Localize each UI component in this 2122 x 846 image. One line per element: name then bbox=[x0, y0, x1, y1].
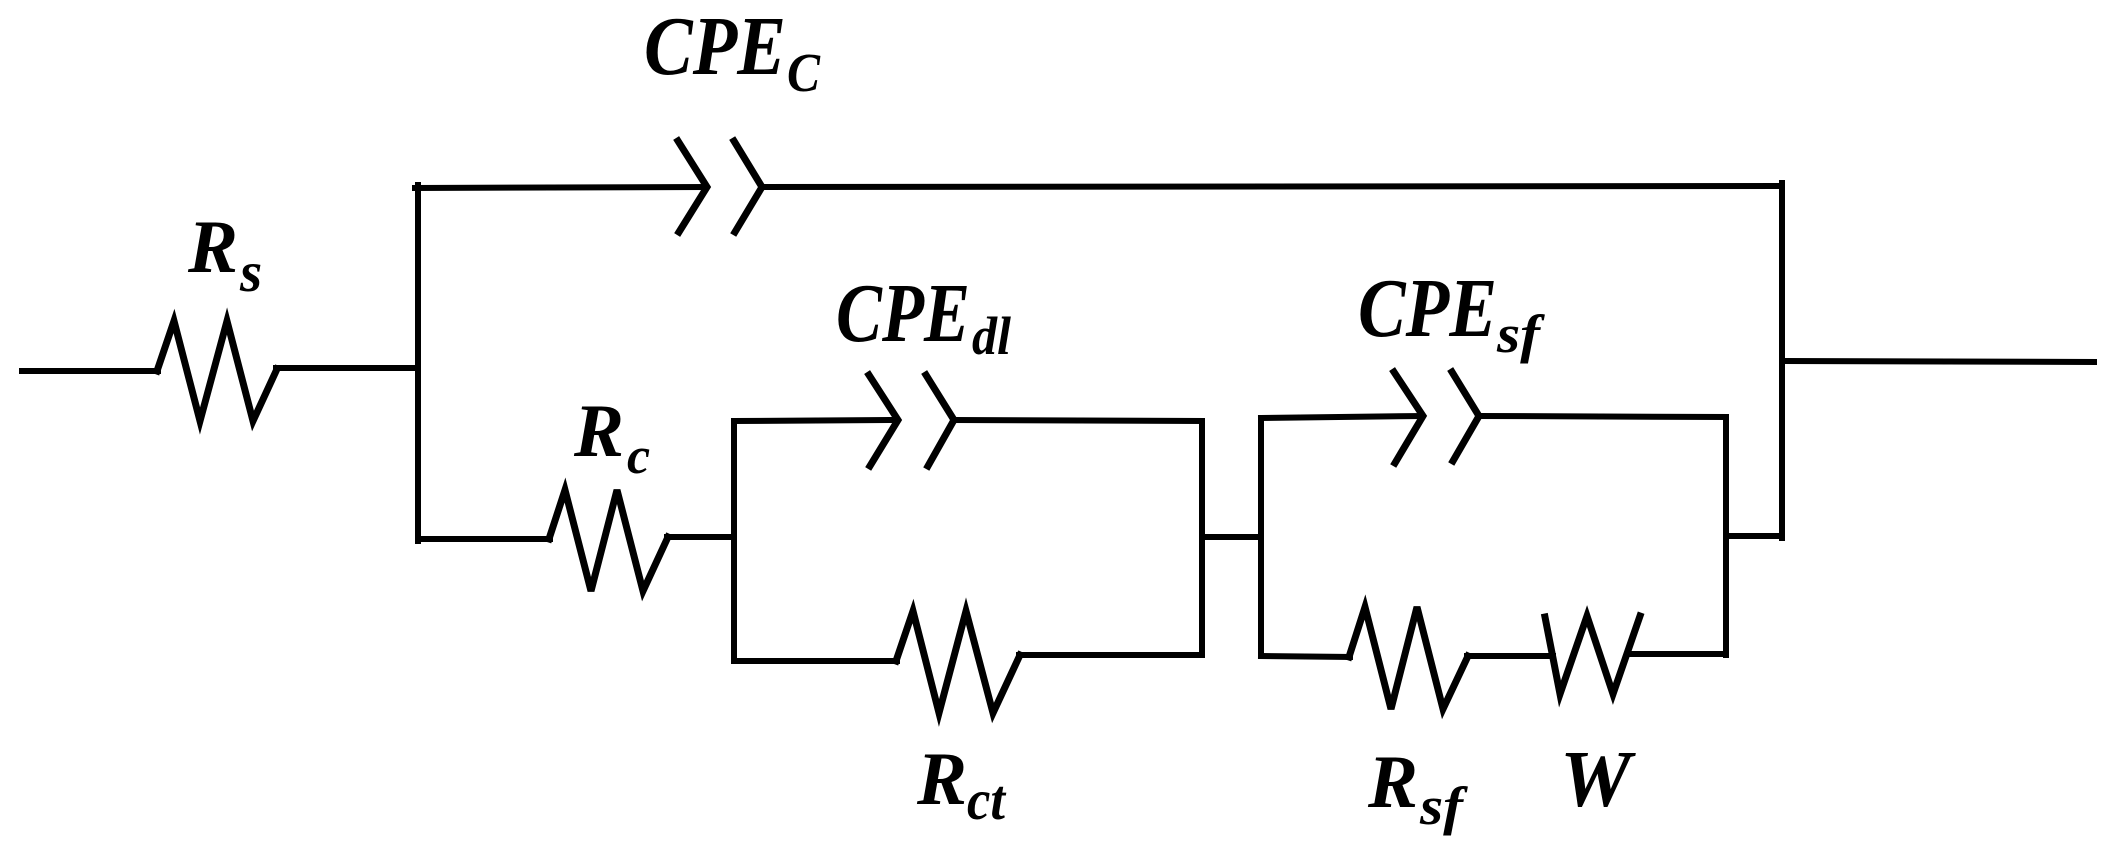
capacitor CPE_sf chevron 2 bbox=[1452, 372, 1479, 461]
svg-text:CPE: CPE bbox=[1358, 262, 1497, 355]
box1 bottom edge wire right bbox=[1019, 652, 1202, 658]
capacitor CPE_C chevron 1 bbox=[678, 141, 707, 232]
wire top branch left bbox=[415, 187, 706, 188]
wire top branch right bbox=[762, 186, 1782, 187]
box1 top edge wire right bbox=[954, 420, 1202, 421]
box2 left edge wire bbox=[1258, 418, 1264, 656]
capacitor CPE_dl chevron 1 bbox=[869, 375, 898, 466]
svg-text:CPE: CPE bbox=[644, 0, 786, 93]
capacitor CPE_sf chevron 1 bbox=[1394, 372, 1423, 463]
box1 top edge wire left bbox=[734, 420, 897, 421]
svg-text:sf: sf bbox=[1419, 776, 1469, 836]
capacitor CPE_C chevron 2 bbox=[734, 141, 762, 232]
box2 top edge wire right bbox=[1479, 416, 1726, 417]
box1 right edge wire bbox=[1199, 421, 1205, 655]
node: left junction vertical wire bbox=[415, 185, 421, 541]
wire Rs to left node bbox=[276, 365, 418, 371]
wire box1 to box2 bbox=[1202, 534, 1261, 540]
wire input lead bbox=[22, 368, 158, 374]
wire Rc to box1 bbox=[667, 534, 734, 540]
box2 right edge wire bbox=[1723, 417, 1729, 655]
resistor Rs bbox=[157, 321, 277, 421]
wire output lead bbox=[1785, 361, 2094, 362]
svg-text:R: R bbox=[573, 390, 624, 473]
box1 left edge wire bbox=[731, 421, 737, 661]
svg-text:R: R bbox=[187, 206, 238, 289]
svg-text:c: c bbox=[627, 428, 650, 485]
box2 bottom edge wire left bbox=[1261, 656, 1350, 657]
wire Rsf to W bbox=[1467, 653, 1553, 659]
box1 bottom edge wire left bbox=[734, 658, 897, 664]
svg-text:R: R bbox=[916, 738, 967, 821]
resistor Rc bbox=[549, 490, 668, 591]
svg-text:ct: ct bbox=[967, 769, 1007, 832]
wire bottom branch left bbox=[418, 536, 550, 542]
svg-text:dl: dl bbox=[972, 306, 1011, 366]
wire right junction vertical bbox=[1779, 183, 1785, 538]
resistor W Warburg zigzag bbox=[1545, 616, 1640, 694]
capacitor CPE_dl chevron 2 bbox=[926, 375, 954, 466]
svg-text:R: R bbox=[1367, 741, 1418, 824]
resistor Rct bbox=[896, 611, 1020, 713]
svg-text:C: C bbox=[787, 42, 821, 103]
svg-text:sf: sf bbox=[1496, 304, 1546, 364]
svg-text:CPE: CPE bbox=[836, 267, 970, 360]
wire W to box2 right edge bbox=[1631, 651, 1726, 657]
svg-text:W: W bbox=[1560, 736, 1636, 824]
wire box2 to right junction bbox=[1726, 533, 1782, 539]
resistor Rsf bbox=[1349, 607, 1468, 709]
box2 top edge wire left bbox=[1261, 416, 1422, 418]
svg-text:s: s bbox=[239, 241, 262, 304]
